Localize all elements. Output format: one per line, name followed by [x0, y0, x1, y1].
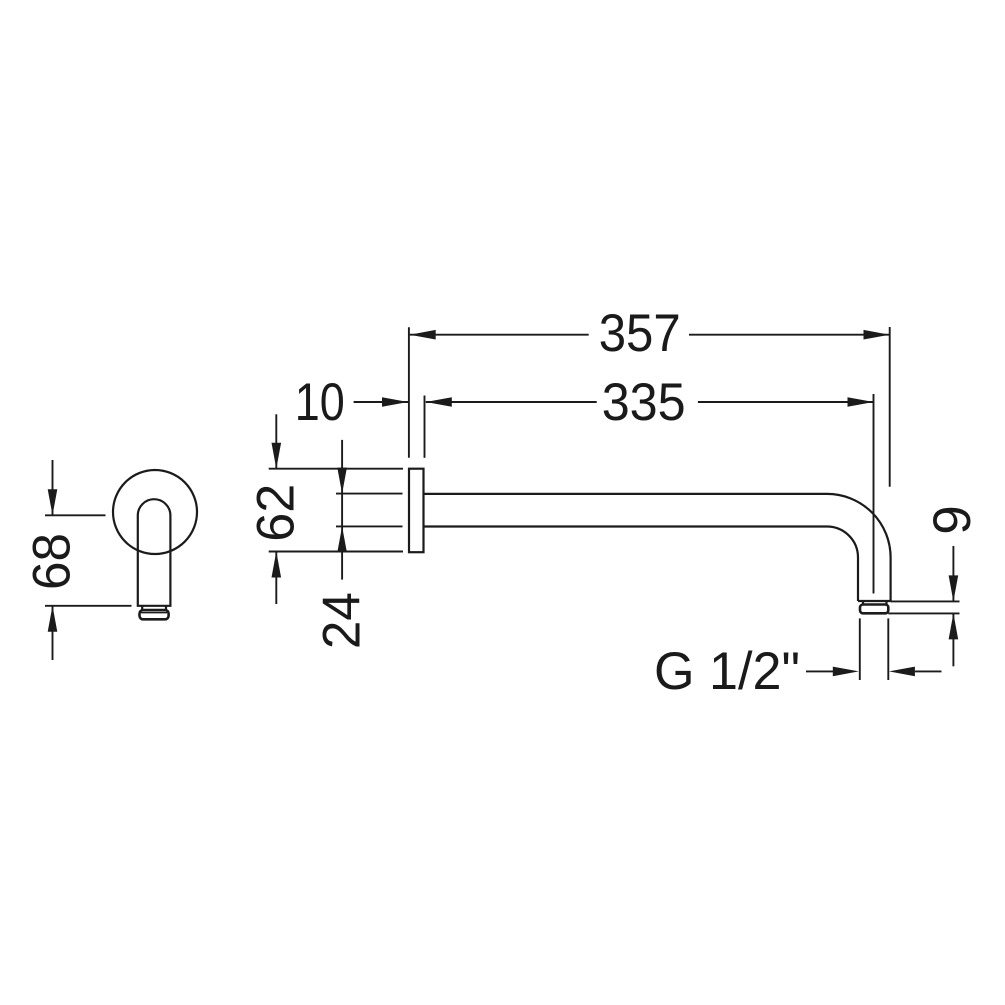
svg-text:10: 10 — [295, 373, 345, 432]
svg-text:G 1/2": G 1/2" — [654, 642, 800, 701]
svg-text:62: 62 — [246, 484, 305, 542]
svg-text:24: 24 — [313, 592, 372, 649]
svg-text:68: 68 — [23, 533, 82, 590]
svg-text:335: 335 — [602, 373, 686, 432]
svg-text:9: 9 — [923, 505, 982, 534]
svg-text:357: 357 — [599, 304, 681, 363]
